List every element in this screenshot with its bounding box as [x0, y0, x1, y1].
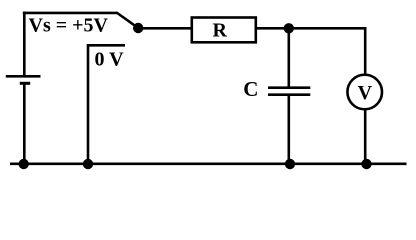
junction dot battery-rail	[19, 159, 29, 169]
node junction top	[284, 23, 294, 33]
voltmeter V	[347, 75, 382, 110]
switch SW1 blade	[117, 13, 138, 28]
wire node to right corner	[289, 27, 367, 30]
wire capacitor to bottom rail	[287, 95, 290, 164]
wire switch to resistor	[138, 27, 192, 30]
svg-text:0 V: 0 V	[95, 49, 125, 71]
wire battery top vertical	[23, 12, 26, 77]
wire node down to capacitor	[287, 28, 290, 87]
svg-text:R: R	[213, 20, 228, 42]
svg-text:V: V	[358, 82, 373, 104]
svg-text:C: C	[243, 77, 258, 101]
junction dot capacitor-rail	[285, 159, 295, 169]
switch SW1 pole dot	[133, 23, 143, 33]
resistor R box	[192, 18, 256, 43]
battery B1	[6, 76, 41, 164]
junction dot voltmeter-rail	[361, 159, 371, 169]
wire right vertical to voltmeter	[364, 27, 367, 75]
wire top-left horizontal	[23, 12, 118, 15]
svg-text:Vs = +5V: Vs = +5V	[29, 15, 109, 37]
wire resistor to node	[256, 27, 290, 30]
capacitor C plates	[268, 88, 310, 95]
wire bottom rail	[10, 163, 407, 166]
wire 0V branch (L shape)	[88, 45, 125, 164]
junction dot 0V-rail	[83, 159, 93, 169]
wire voltmeter to bottom rail	[364, 110, 367, 165]
